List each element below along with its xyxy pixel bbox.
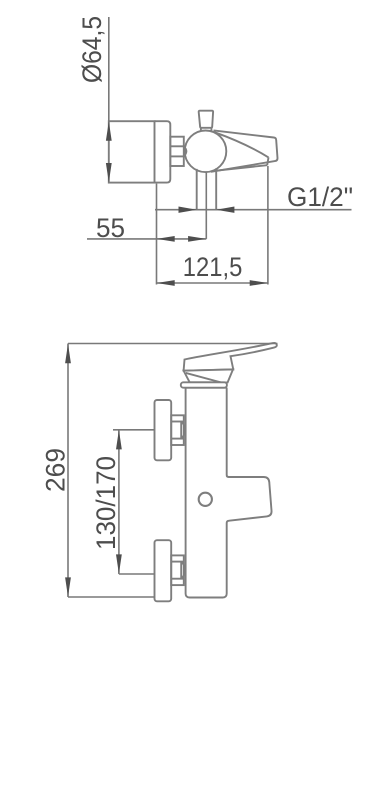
bottom nut flat lower: [171, 578, 184, 580]
side view: wall escutcheon block: [109, 121, 155, 182]
nut flat line lower: [170, 155, 184, 157]
arrow d64,5 up: [106, 121, 112, 141]
dim line diameter 64,5 vertical: [108, 17, 110, 121]
shower outlet pipe right line: [215, 168, 217, 209]
spout inner beak upper curve: [215, 132, 269, 157]
dim line 130/170 vertical: [118, 430, 120, 574]
top nut flat lower: [171, 438, 184, 440]
side view: body cap: [155, 121, 171, 182]
arrow 130/170 up: [116, 430, 122, 450]
dim line 269 vertical: [67, 344, 69, 598]
top union nut: [171, 415, 184, 445]
extension line spout tip: [267, 166, 269, 285]
svg-text:Ø64,5: Ø64,5: [77, 16, 107, 83]
top wall flange: [155, 400, 172, 460]
bottom nut chamfer arc: [181, 562, 185, 579]
handle neck quad: [184, 369, 233, 382]
extension line bottom flange: [68, 596, 155, 598]
bottom nut flat upper: [171, 561, 184, 563]
nut flat line upper: [170, 145, 184, 147]
spout envelope outline: [211, 130, 278, 171]
dim line 55: [87, 238, 206, 240]
top nut chamfer arc: [181, 422, 185, 439]
extension line top of handle: [68, 343, 278, 345]
spout aerator tip face: [267, 157, 268, 165]
bottom union nut: [171, 555, 184, 585]
arrow 269 up: [65, 344, 71, 364]
svg-text:121,5: 121,5: [183, 252, 243, 282]
front view: lever handle: [184, 343, 277, 371]
extension line pipe center: [205, 173, 207, 239]
svg-text:130/170: 130/170: [91, 456, 121, 550]
top nut inner vertical: [180, 422, 182, 439]
arrow 269 down: [65, 577, 71, 597]
side view: hex nut: [170, 137, 184, 166]
front view: small screw circle: [199, 493, 212, 506]
svg-text:269: 269: [41, 448, 71, 492]
handle neck diagonal: [186, 373, 223, 383]
arrow G1/2 pointing left: [216, 207, 234, 213]
valve body circle: [185, 131, 227, 173]
svg-text:55: 55: [96, 213, 125, 243]
extension line top union center: [113, 429, 155, 431]
knob neck right line: [210, 128, 212, 132]
extension line bottom union center: [119, 573, 155, 575]
arrow 130/170 down: [116, 554, 122, 574]
shower outlet pipe left line: [196, 169, 198, 210]
bottom wall flange: [155, 540, 172, 601]
arrow 121,5 pointing left: [157, 280, 175, 286]
svg-text:G1/2": G1/2": [287, 182, 353, 212]
arrow G1/2 pointing right: [179, 207, 197, 213]
nut chamfer arc: [184, 146, 187, 156]
arrow 121,5 pointing right: [250, 280, 268, 286]
dim line G1/2: [155, 209, 352, 211]
knob neck left line: [200, 128, 202, 132]
arrow 55 pointing right: [188, 236, 206, 242]
handle knob trapezoid: [199, 111, 213, 128]
extension line from block bottom left: [156, 184, 158, 285]
dim line 121,5: [157, 282, 268, 284]
front view: body and spout silhouette: [186, 388, 272, 598]
top nut flat upper: [171, 421, 184, 423]
bottom nut inner vertical: [180, 562, 182, 579]
arrow 55 pointing left: [157, 236, 175, 242]
spout beak bottom edge: [214, 165, 268, 171]
arrow d64,5 down: [106, 163, 112, 183]
cartridge collar bar: [181, 382, 227, 387]
